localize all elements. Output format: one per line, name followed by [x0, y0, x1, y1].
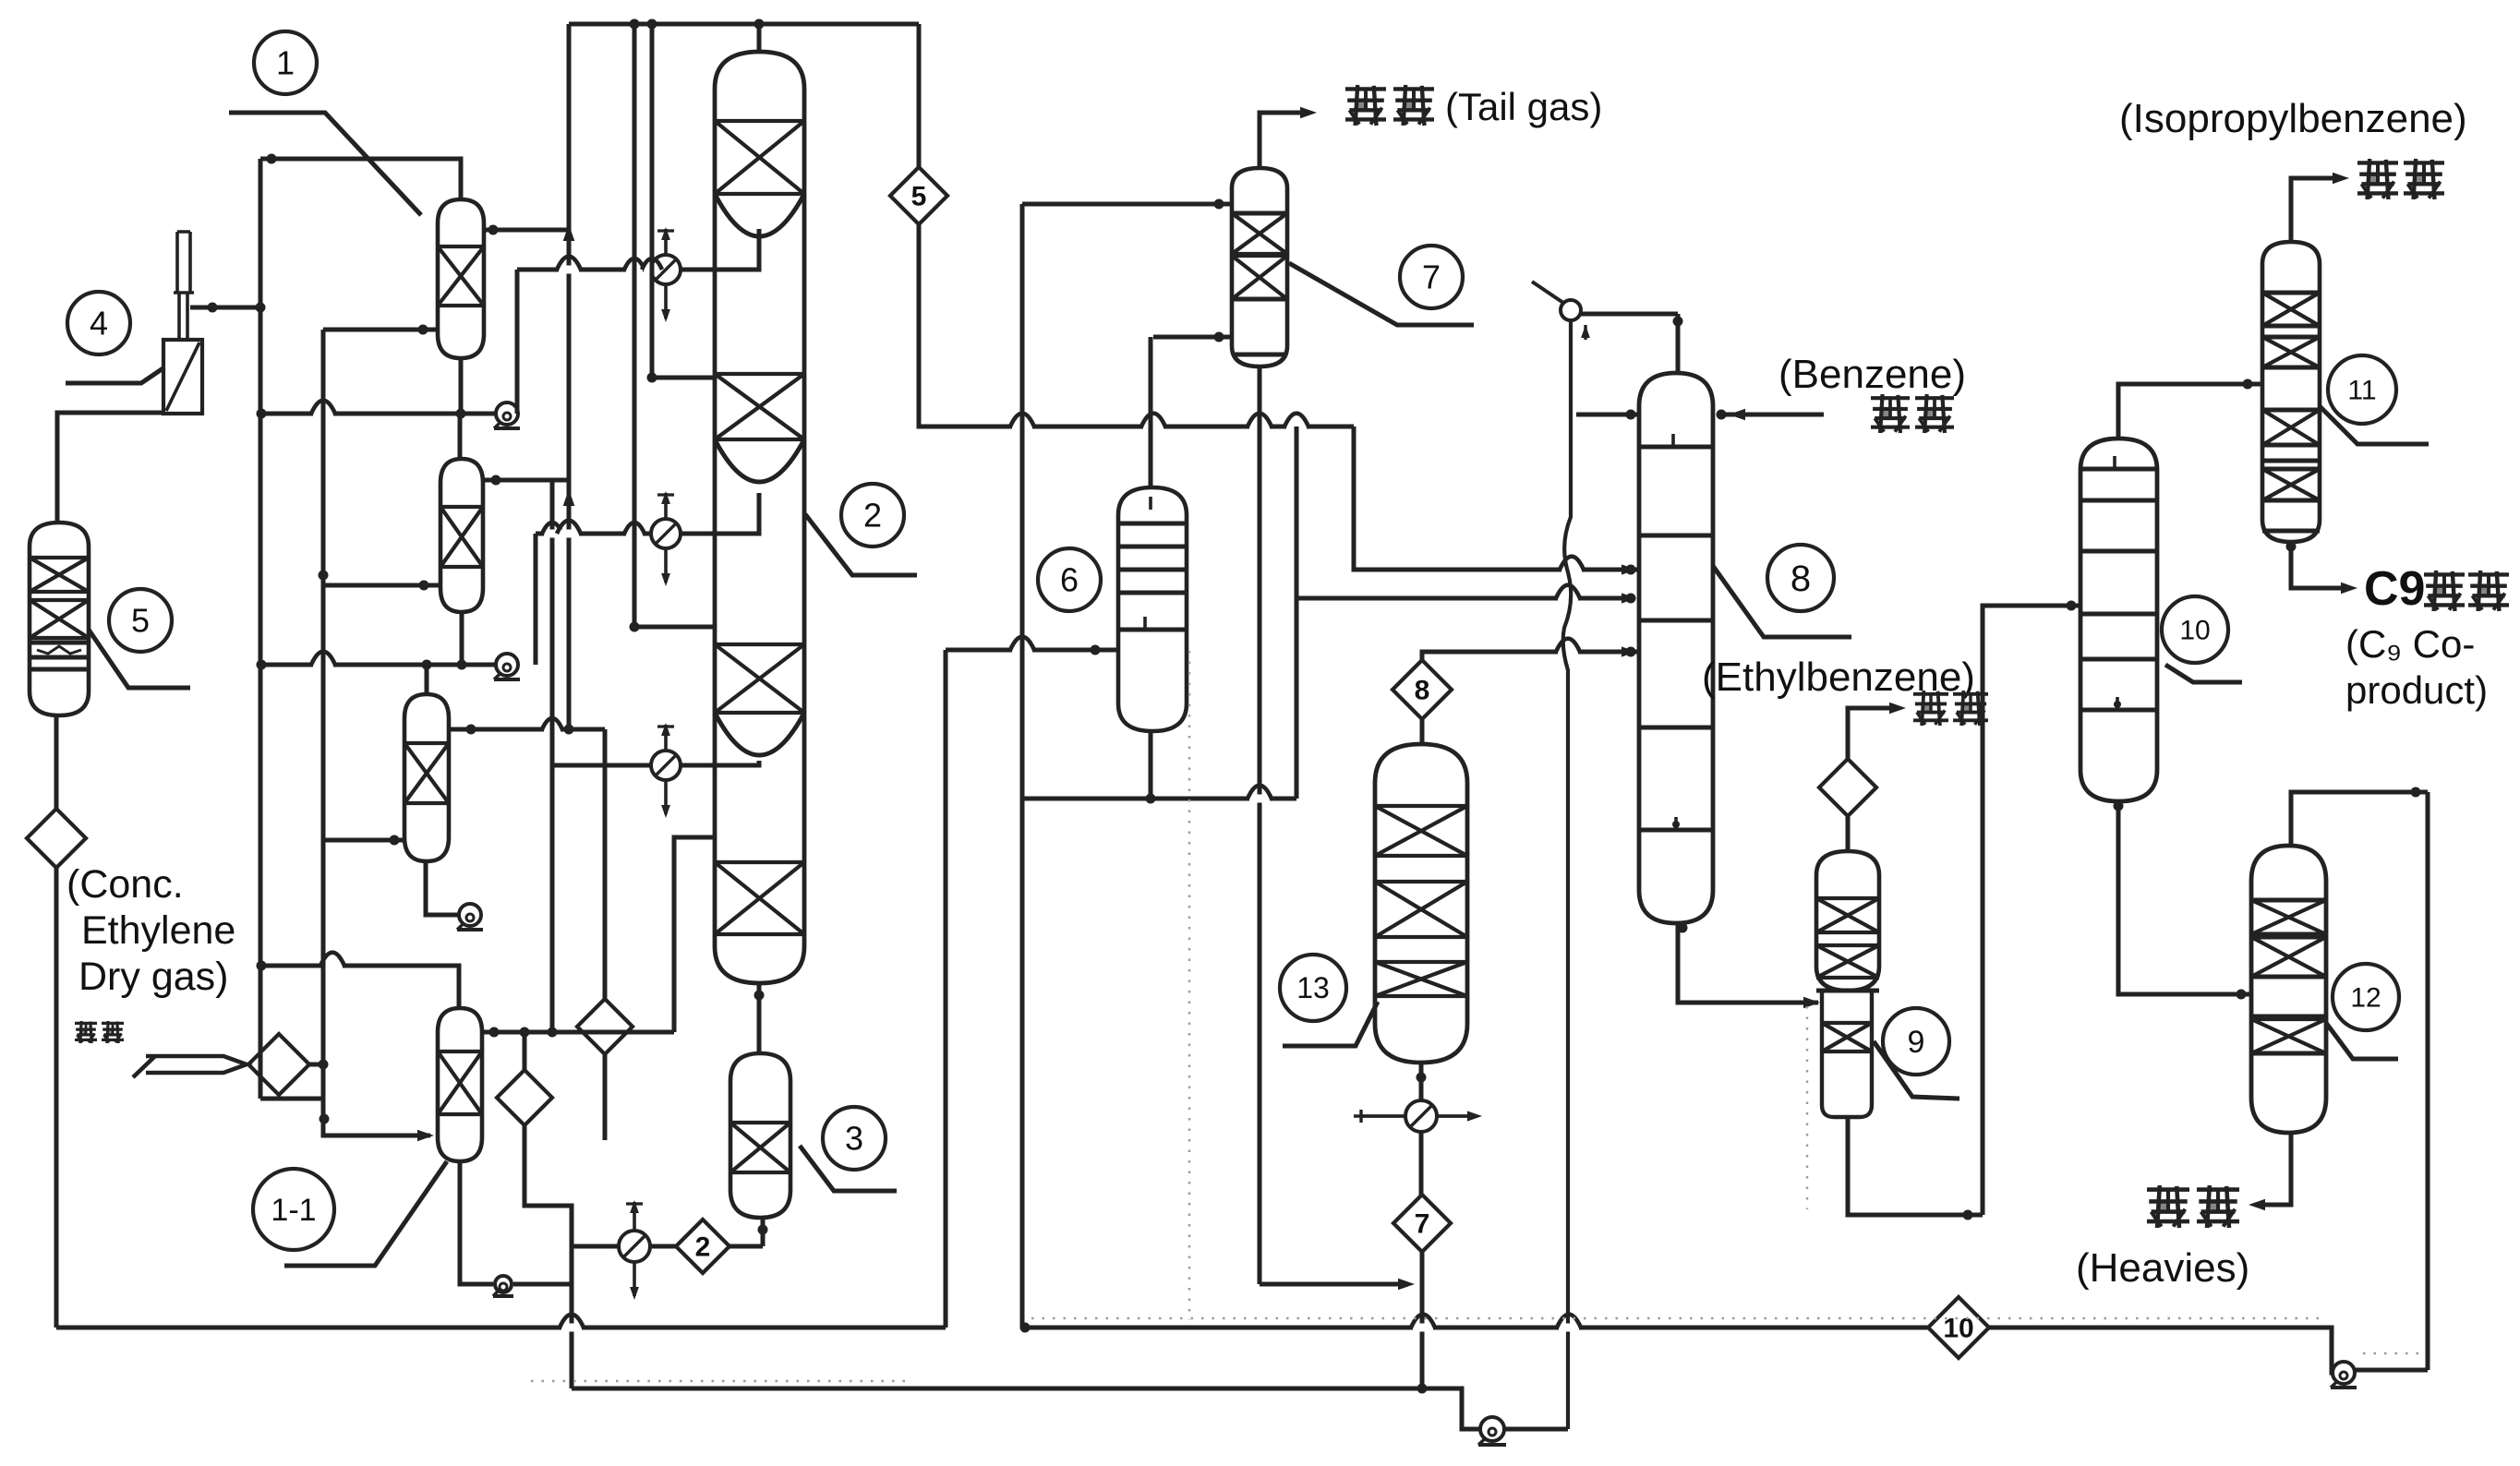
- column T7 vessel: [1232, 168, 1287, 366]
- diamond tag 8: [1393, 660, 1452, 719]
- wire T7 overhead tail gas: [1260, 113, 1309, 168]
- diamond tag 5: [890, 167, 947, 224]
- column T9 packing 2: [1816, 945, 1879, 978]
- column T2 bed 1 collector dome: [715, 194, 804, 236]
- wire HX2 drop to header: [534, 534, 538, 665]
- svg-text:(Conc.: (Conc.: [66, 862, 184, 907]
- balloon label 8 (column T8): [1767, 545, 1834, 611]
- wire R4 left inlet: [323, 1119, 430, 1136]
- column T10 ticks: [2113, 456, 2116, 469]
- wire HX13 to tag7: [1419, 1132, 1424, 1196]
- wire R3 left inlet: [323, 838, 404, 843]
- faint dotted scan line D: [1806, 1006, 1808, 1209]
- wire col T2 west header: [650, 24, 655, 378]
- label dry gas feed (Chinese): [75, 1022, 97, 1025]
- wire recycle header A: [259, 159, 263, 1099]
- wire T9 bottoms: [1848, 1117, 1968, 1215]
- svg-text:(C₉ Co-: (C₉ Co-: [2345, 622, 2475, 666]
- wire T6 feed riser: [944, 650, 948, 1328]
- wire P4 discharge: [513, 1282, 572, 1287]
- vessel R13 packing 2: [1375, 882, 1467, 937]
- faint dotted scan line C: [531, 1380, 905, 1382]
- balloon label 7 (column T7): [1400, 246, 1463, 308]
- column T2 bed 2 packing: [715, 374, 804, 439]
- wire T11 bottoms C9: [2291, 542, 2350, 588]
- leader line for label 5: [89, 630, 190, 688]
- column T11 vessel: [2262, 242, 2320, 542]
- column T9 neck lines: [1816, 989, 1879, 993]
- faint dotted scan line B: [1188, 651, 1190, 1320]
- wire T6 bottoms to T8 feed2: [1295, 427, 1299, 799]
- pump P1: [496, 403, 518, 425]
- wire D3 bottom outlet: [761, 1218, 766, 1246]
- column T12 packing 2: [2251, 937, 2326, 977]
- wire HX4 circuit: [729, 1244, 763, 1249]
- vessel R13: [1375, 744, 1467, 1063]
- wire tag c stub up: [603, 729, 608, 999]
- faint dotted scan line A: [1031, 1317, 2327, 1319]
- wire bed2 feed: [652, 376, 715, 380]
- reflux valve V8: [1561, 300, 1581, 320]
- pump P6: [2333, 1362, 2355, 1384]
- balloon label 3 (vessel D3): [823, 1107, 886, 1170]
- reactor R4 vessel: [438, 1008, 482, 1161]
- vessel F4 filter neck: [174, 293, 194, 338]
- heat exchanger HX4: [619, 1231, 650, 1262]
- column T9 packing 3: [1822, 1023, 1872, 1051]
- svg-text:12: 12: [2350, 983, 2381, 1014]
- wire T9 bottoms riser to T10: [1983, 606, 2064, 1215]
- svg-text:8: 8: [1415, 676, 1430, 706]
- vessel D3 packing: [730, 1123, 790, 1172]
- wire gas line drop to T8 feed: [1354, 427, 1641, 570]
- wire R3 overhead nozzle: [449, 727, 605, 732]
- wire T7 left inlet: [1022, 202, 1232, 207]
- column T7 packing 1: [1232, 213, 1287, 254]
- wire T7 lower inlet: [1153, 335, 1232, 340]
- wire T5 bottom outlet: [54, 715, 59, 809]
- balloon label 2 (column T2): [841, 484, 904, 547]
- faint dotted scan line E: [2363, 1352, 2422, 1354]
- wire bed2 outlet to HX2: [681, 493, 759, 534]
- svg-text:(Tail gas): (Tail gas): [1445, 85, 1602, 128]
- pump P2: [496, 654, 518, 676]
- wire tag5 to gas line: [919, 224, 1354, 427]
- leader line for label 10: [2165, 665, 2242, 682]
- reactor R2 vessel: [440, 459, 483, 612]
- leader line for label 7: [1289, 263, 1474, 325]
- column T8 ticks: [1671, 434, 1675, 447]
- pump P3: [459, 904, 481, 926]
- wire T12 bottoms heavies: [2256, 1133, 2291, 1205]
- wire HX1 outlet west: [517, 268, 651, 272]
- column T2 bed 3 packing: [715, 644, 804, 713]
- wire valve to T8 top: [1581, 312, 1678, 317]
- column T7 section lines: [1232, 211, 1287, 216]
- reactor R4 packing: [438, 1051, 482, 1114]
- svg-text:10: 10: [1943, 1314, 1973, 1344]
- wire P5 discharge: [1504, 1427, 1568, 1432]
- column T2 bed 4 packing: [715, 862, 804, 934]
- svg-text:1: 1: [276, 44, 295, 82]
- wire riser to overhead line: [567, 24, 572, 729]
- column T6 top tick: [1149, 497, 1152, 510]
- column T5 vessel: [30, 523, 89, 715]
- diamond tag stream a: [27, 809, 86, 868]
- label benzene (Chinese): [1871, 396, 1910, 400]
- wire bed1 outlet to HX1: [681, 229, 759, 270]
- wire R4 top feed: [261, 966, 459, 1008]
- wire R1 bottom outlet: [459, 358, 464, 414]
- wire R4 nozzle to tag b: [523, 1032, 527, 1070]
- column T5 packing 1: [30, 558, 89, 592]
- wire T10 bottoms to T12: [2118, 801, 2234, 994]
- leader line for label 4: [66, 367, 164, 383]
- wire T2 bottom outlet: [757, 983, 762, 1053]
- svg-text:C9: C9: [2364, 562, 2425, 616]
- column T6 vessel: [1118, 487, 1187, 731]
- svg-text:9: 9: [1908, 1025, 1925, 1060]
- leader line for label 12: [2326, 1023, 2398, 1059]
- svg-text:product): product): [2345, 668, 2488, 712]
- wire V2 liquid drop line: [550, 480, 555, 1032]
- leader line for label 3: [800, 1146, 897, 1191]
- column T5 packing 2: [30, 600, 89, 638]
- reactor R2 packing: [440, 507, 483, 567]
- svg-text:8: 8: [1791, 559, 1811, 599]
- svg-text:4: 4: [90, 305, 108, 342]
- wire T6 left inlet: [946, 648, 1095, 653]
- column T10 trays: [2080, 467, 2157, 472]
- svg-text:6: 6: [1060, 561, 1079, 599]
- balloon label 5 (column T5): [109, 589, 172, 652]
- balloon label 1-1 (guard reactor): [253, 1169, 334, 1250]
- pump P5: [1480, 1417, 1504, 1441]
- wire T9 product ethylbenzene: [1848, 708, 1899, 759]
- wire T6 bottoms header: [1022, 797, 1296, 801]
- svg-text:(Benzene): (Benzene): [1778, 352, 1966, 397]
- svg-text:(Isopropylbenzene): (Isopropylbenzene): [2119, 96, 2467, 141]
- wire tag c stub down: [603, 1054, 608, 1140]
- balloon label 1 (reactor system): [254, 31, 317, 94]
- column T2 bed 3 collector dome: [715, 713, 804, 755]
- wire tag7 drop: [1420, 1252, 1425, 1388]
- wire bed3 feed: [634, 625, 715, 630]
- wire benzene feed: [1721, 413, 1824, 417]
- HX1 utility arrows: [664, 229, 668, 255]
- wire T8 left inlet: [1576, 413, 1631, 417]
- wire R4 bottom outlet: [460, 1161, 493, 1284]
- wire west drop to bottom header: [570, 1206, 574, 1388]
- HX3 utility arrows: [664, 725, 668, 751]
- svg-text:Dry gas): Dry gas): [78, 955, 228, 999]
- balloon label 13 (reactor R13): [1280, 955, 1346, 1021]
- balloon label 9 (column T9): [1883, 1008, 1949, 1075]
- balloon label 6 (column T6): [1038, 548, 1101, 611]
- diamond tag 7: [1393, 1195, 1451, 1252]
- column T9 lower shell: [1822, 991, 1872, 1117]
- column T2 bed 2 collector dome: [715, 439, 804, 482]
- label tail gas (Chinese): [1345, 87, 1386, 90]
- wire feed header B: [321, 330, 326, 1136]
- leader line for label 9: [1874, 1041, 1959, 1099]
- wire T12 overhead: [2291, 792, 2428, 846]
- column T11 packing 1: [2262, 293, 2320, 326]
- wire T9 overhead: [1846, 816, 1851, 851]
- leader line for label 1-1: [284, 1161, 447, 1266]
- balloon label 11 (column T11): [2328, 355, 2396, 424]
- column T11 packing 3: [2262, 410, 2320, 445]
- wire P6 discharge: [2355, 1368, 2428, 1373]
- svg-text:3: 3: [845, 1120, 863, 1158]
- wire tag5 riser: [917, 24, 922, 167]
- wire bottom header 2: [572, 1388, 1481, 1429]
- wire R4 overhead nozzle: [482, 1030, 674, 1035]
- column T12 bands: [2251, 898, 2326, 903]
- feed arrow symbol (dry gas feed): [133, 1056, 247, 1077]
- diamond tag stream c: [577, 999, 633, 1054]
- wire T8 riser: [1676, 314, 1681, 373]
- wire R2 bottom outlet: [460, 612, 464, 665]
- wire R1 overhead nozzle: [484, 228, 569, 233]
- wire HX3 outlet west: [552, 763, 651, 768]
- wire feed to header B: [309, 1063, 323, 1067]
- wire bed3 outlet to HX3: [681, 761, 759, 765]
- reactor R3 packing: [404, 743, 449, 803]
- wire T6 bottoms: [1149, 731, 1153, 799]
- column T7 packing 2: [1232, 256, 1287, 299]
- wire T12 recycle right: [2426, 792, 2430, 1370]
- diamond tag 2: [676, 1220, 729, 1273]
- wire R13 bottom: [1419, 1063, 1424, 1100]
- wire HX4 west: [572, 1244, 619, 1249]
- wire vessel13 overhead to T8 feed3: [1422, 652, 1641, 660]
- column T8 vessel: [1639, 373, 1713, 923]
- svg-text:Ethylene: Ethylene: [81, 908, 235, 953]
- vessel F4 filter pipe: [177, 232, 190, 293]
- wire R3 bottom outlet to pump P3: [426, 861, 459, 915]
- vessel D3: [730, 1053, 790, 1218]
- svg-text:7: 7: [1415, 1209, 1430, 1240]
- diamond tag 10: [1928, 1297, 1989, 1358]
- svg-text:5: 5: [911, 182, 927, 212]
- wire bed4 feed from R4 overhead: [674, 837, 715, 1032]
- wire bottom header 1 east: [1025, 1326, 1929, 1330]
- vessel F4 filter body: [163, 340, 202, 414]
- wire R2 overhead nozzle: [483, 478, 569, 483]
- svg-text:7: 7: [1422, 258, 1441, 296]
- wire T2 riser: [757, 24, 762, 52]
- wire T8 reflux drop: [1563, 320, 1572, 1429]
- column T11 bands: [2262, 291, 2320, 295]
- wire R3 top feed: [425, 665, 429, 694]
- wire header1 to pump P6: [1989, 1328, 2334, 1373]
- column T11 packing 4: [2262, 469, 2320, 500]
- wire riser corner: [1968, 1213, 1983, 1218]
- wire T11 overhead isopropylbenzene: [2291, 178, 2342, 242]
- wire tag b to HX4 line: [524, 1125, 572, 1246]
- balloon label 12 (column T12): [2333, 964, 2399, 1030]
- label ethylbenzene product (Chinese): [1913, 692, 1948, 696]
- balloon label 10 (column T10): [2162, 596, 2228, 663]
- svg-text:13: 13: [1296, 971, 1330, 1004]
- column T9 upper vessel: [1816, 851, 1879, 991]
- HX13 side arrows: [1361, 1114, 1405, 1118]
- column T5 tray band: [30, 641, 89, 645]
- heat exchanger HX2: [651, 519, 681, 548]
- wire T7 bottoms elbow: [1260, 1282, 1407, 1287]
- wire bottom header 1 west: [56, 1326, 946, 1330]
- wire T6 overhead to T7: [1149, 337, 1153, 487]
- wire R2 left inlet: [323, 583, 440, 588]
- leader line for label 13: [1283, 1002, 1378, 1046]
- wire T10 overhead to T11: [2118, 384, 2248, 439]
- wire pump header 2: [261, 663, 496, 667]
- reactor R3 vessel: [404, 694, 449, 861]
- wire col T2 west header 2: [633, 24, 637, 627]
- column T9 packing 1: [1816, 898, 1879, 932]
- pump P4: [495, 1276, 512, 1292]
- wire pump header 1: [261, 412, 496, 416]
- leader line for label 11: [2320, 406, 2429, 444]
- column T11 packing 2: [2262, 337, 2320, 367]
- label isopropylbenzene product (Chinese): [2357, 161, 2398, 164]
- svg-text:11: 11: [2347, 376, 2376, 406]
- wire HX1 drop to header: [515, 270, 520, 414]
- svg-text:5: 5: [131, 602, 150, 640]
- leader line for label 1: [229, 113, 421, 215]
- vessel R13 packing 1: [1375, 806, 1467, 856]
- column T2 vessel: [715, 52, 804, 983]
- diamond tag stream d: [1819, 759, 1876, 816]
- heat exchanger HX13: [1405, 1100, 1437, 1132]
- reactor R1 packing: [438, 246, 484, 306]
- wire tag2 to HX4: [650, 1244, 677, 1249]
- wire R2 top feed: [458, 414, 463, 459]
- wire F4 side outlet: [190, 306, 260, 310]
- wire T7 bottoms: [1258, 366, 1262, 1284]
- svg-text:2: 2: [695, 1232, 711, 1263]
- column T12 packing 3: [2251, 1019, 2326, 1053]
- svg-text:2: 2: [863, 497, 882, 535]
- diamond tag stream b: [497, 1070, 552, 1125]
- vessel R13 packing 3: [1375, 962, 1467, 996]
- column T2 bed 1 packing: [715, 121, 804, 194]
- label heavies (Chinese): [2147, 1187, 2189, 1192]
- balloon label 4 (filter): [67, 292, 130, 354]
- HX4 utility arrows: [633, 1202, 636, 1231]
- heat exchanger HX3: [651, 751, 681, 780]
- diamond tag feed stream: [248, 1034, 309, 1095]
- svg-text:1-1: 1-1: [271, 1193, 316, 1228]
- wire F4 bottom outlet to T5: [57, 413, 163, 523]
- wire HX2 outlet west: [536, 532, 651, 536]
- reactor R1 vessel: [438, 199, 484, 358]
- wire T6 bottoms drop: [1020, 204, 1025, 1328]
- wire T5 outlet to bottom header: [54, 868, 59, 1328]
- leader line for label 2: [805, 514, 917, 575]
- heat exchanger HX1: [651, 255, 681, 284]
- svg-text:(Heavies): (Heavies): [2076, 1245, 2249, 1291]
- wire R1 left inlet: [323, 328, 438, 332]
- leader line for label 8: [1713, 566, 1851, 637]
- wire T8 bottoms: [1678, 923, 1818, 1003]
- column T12 vessel: [2251, 846, 2326, 1133]
- wire R1 top line: [260, 159, 461, 199]
- column T6 trays: [1118, 522, 1187, 526]
- column T10 vessel: [2080, 439, 2157, 801]
- wire tag8 to vessel 13: [1420, 719, 1425, 744]
- svg-text:10: 10: [2179, 616, 2210, 646]
- column T12 packing 1: [2251, 900, 2326, 934]
- column T8 trays: [1639, 445, 1713, 450]
- wire T2 top header: [569, 22, 919, 27]
- HX2 utility arrows: [664, 493, 668, 519]
